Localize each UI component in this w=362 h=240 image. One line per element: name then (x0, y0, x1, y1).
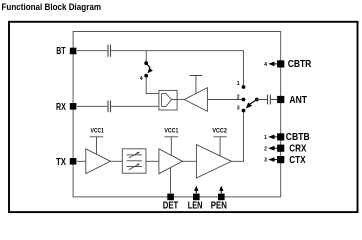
svg-text:LEN: LEN (188, 200, 203, 211)
power VCC1 (A1) (90, 129, 105, 155)
wire A1 to filter (110, 160, 122, 162)
svg-text:CBTB: CBTB (286, 132, 310, 143)
wire BT line (77, 51, 244, 86)
svg-text:2: 2 (237, 95, 240, 101)
pin TX (56, 157, 76, 168)
svg-text:DET: DET (163, 200, 179, 211)
svg-text:3: 3 (264, 158, 267, 164)
power VCC2 (PA) (212, 129, 227, 156)
svg-text:1: 1 (237, 81, 240, 87)
wire splitter to LNA (172, 99, 185, 101)
svg-text:1: 1 (264, 135, 267, 141)
svg-text:4: 4 (264, 62, 267, 68)
svg-text:ANT: ANT (289, 95, 307, 106)
pin CBTB (1) (264, 132, 310, 143)
pin DET (163, 194, 179, 212)
wire PA output to switch throw 3 (231, 112, 243, 161)
pin RX (56, 102, 76, 113)
wire switch-4 branch (145, 51, 147, 62)
wire A2 to PA (183, 160, 197, 162)
svg-text:2: 2 (264, 146, 267, 152)
svg-text:RX: RX (56, 102, 66, 113)
pin BT (56, 46, 76, 57)
splitter box U2 (159, 90, 177, 110)
wire filter to A2 (146, 160, 159, 162)
op-amp driver amp A1 (86, 149, 111, 174)
switch SW1 (antenna) throws (237, 81, 259, 112)
wire DET tap from A2 (170, 168, 172, 194)
capacitor (BT coupling) (108, 45, 111, 57)
switch SW4 (BT/RX) (140, 61, 153, 82)
svg-text:CBTR: CBTR (288, 59, 312, 70)
svg-text:PEN: PEN (211, 200, 227, 211)
wire switch pole to ANT (257, 99, 277, 101)
pin LEN with input arrow (188, 186, 203, 212)
svg-text:TX: TX (56, 157, 66, 168)
op-amp PA (196, 145, 231, 178)
filter block FL1 (122, 149, 146, 173)
svg-text:3: 3 (237, 106, 240, 112)
svg-text:CTX: CTX (289, 155, 306, 166)
pin PEN with input arrow (211, 186, 227, 212)
IC boundary (73, 32, 281, 197)
wire RX line (77, 105, 159, 107)
pin CRX (2) (264, 144, 307, 155)
svg-text:BT: BT (56, 46, 65, 57)
pin ANT (277, 95, 307, 106)
svg-text:4: 4 (140, 76, 143, 82)
svg-text:CRX: CRX (289, 144, 307, 155)
pin CBTR (4) (264, 59, 311, 70)
svg-text:VCC1: VCC1 (90, 129, 104, 135)
capacitor (RX coupling) (108, 101, 111, 113)
svg-text:VCC1: VCC1 (164, 129, 179, 135)
power VCC1 (A2) (164, 129, 179, 156)
capacitor (ANT coupling) (268, 95, 271, 105)
pin CTX (3) (264, 155, 306, 166)
svg-text:VCC2: VCC2 (212, 129, 227, 135)
wire LNA to antenna switch (207, 99, 241, 101)
wire TX line (77, 160, 86, 162)
power tap on LNA (190, 76, 203, 94)
op-amp LNA (RX, points left) (184, 88, 207, 112)
wire switch pole to splitter (146, 77, 159, 94)
op-amp driver amp A2 (159, 149, 183, 174)
svg-text:Functional Block Diagram: Functional Block Diagram (2, 2, 102, 13)
